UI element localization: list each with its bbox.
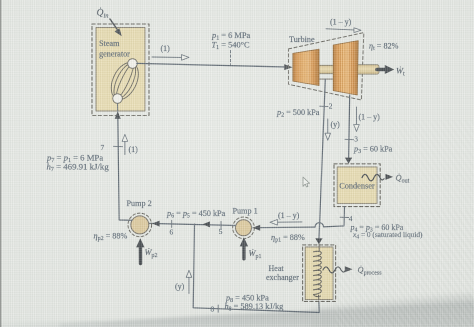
node 8 [211,305,219,314]
svg-text:(1 – y): (1 – y) [330,18,352,27]
Qprocess squiggle arrow [323,265,382,276]
state 4 text [350,223,424,241]
node 7 [101,143,123,152]
svg-text:5: 5 [219,227,223,236]
svg-text:T1 = 540°C: T1 = 540°C [212,41,250,52]
Qin arrow [110,19,122,36]
svg-text:exchanger: exchanger [266,273,299,282]
wire stage2 exit to condenser [345,95,352,164]
steam generator tube bundle [106,58,144,104]
steam generator box [92,24,149,116]
svg-text:Turbine: Turbine [289,35,315,44]
state 8 text [225,294,284,313]
wire extraction line state 2 down to heat exchanger [315,79,325,244]
state 7 text [46,153,109,173]
heat exchanger box [266,245,336,302]
svg-text:(y): (y) [175,282,185,291]
svg-text:ηp2 = 88%: ηp2 = 88% [94,232,128,243]
node 3 [345,135,358,144]
svg-text:ηt = 82%: ηt = 82% [369,42,399,53]
svg-text:8: 8 [211,305,215,314]
wire pump1 to pump2 feed line [149,221,236,228]
Qout squiggle arrow [362,173,410,184]
svg-text:p6 = p5 = 450 kPa: p6 = p5 = 450 kPa [166,209,226,220]
svg-text:Heat: Heat [269,264,285,273]
svg-text:Ẇt: Ẇt [396,67,405,78]
svg-text:Pump 1: Pump 1 [233,207,258,216]
svg-text:2: 2 [329,102,333,111]
Wt output arrow [377,65,405,78]
svg-text:Condenser: Condenser [339,181,375,190]
Wp2 arrow [136,238,157,263]
svg-text:(1): (1) [161,44,171,53]
svg-text:Ẇp2: Ẇp2 [145,248,158,259]
flow arrow (1-y) above turbine [326,18,361,33]
svg-text:x4 = 0 (saturated liquid): x4 = 0 (saturated liquid) [352,230,423,241]
turbine shaft middle [318,65,335,73]
Wp1 arrow [240,237,262,260]
flow arrow (y) extraction [325,119,340,140]
flow arrow (1) up [122,134,138,154]
flow arrow (1-y) into condenser [354,107,380,132]
wire condenser outlet state 4 [253,207,345,231]
svg-text:ηp1 = 88%: ηp1 = 88% [271,233,305,244]
node 5 [219,221,223,236]
mouse cursor [303,177,310,187]
wire heater return (y) from junction down and bottom line to HX [193,224,319,312]
svg-text:Q̇out: Q̇out [396,173,410,184]
node 6 [170,220,174,236]
svg-text:7: 7 [101,143,105,152]
state 1 text [211,31,250,65]
node 4 [340,214,353,223]
svg-text:generator: generator [99,50,130,59]
svg-text:(y): (y) [331,120,341,129]
Qin label [97,7,109,20]
flow arrow (y) up [175,270,192,293]
condenser box [334,164,380,207]
svg-text:(1): (1) [129,145,139,154]
heat exchanger coil [314,244,322,300]
svg-text:h8 = 589.13 kJ/kg: h8 = 589.13 kJ/kg [225,302,284,313]
svg-text:3: 3 [354,135,358,144]
svg-text:Q̇in: Q̇in [97,7,109,20]
hop over extraction line [315,223,324,227]
svg-text:Q̇process: Q̇process [358,265,383,276]
wire state1 pipe to turbine [137,63,293,70]
wire pump2 outlet up to steam generator (state 7/1) [115,104,132,221]
svg-text:h7 = 469.91 kJ/kg: h7 = 469.91 kJ/kg [47,161,110,173]
bottom gray band [0,294,474,327]
turbine shaft output [356,65,379,74]
svg-text:4: 4 [349,214,353,223]
svg-text:p2 = 500 kPa: p2 = 500 kPa [276,108,320,119]
flow arrow (1) [152,44,189,60]
turbine dashed boundary [289,33,364,100]
svg-text:6: 6 [170,228,174,237]
turbine stage 2 [333,41,358,95]
turbine stage 1 [293,49,319,85]
svg-text:(1 – y): (1 – y) [359,113,381,122]
svg-text:p3 = 60 kPa: p3 = 60 kPa [353,145,393,156]
svg-text:(1 – y): (1 – y) [278,211,300,220]
svg-text:Ẇp1: Ẇp1 [249,249,262,260]
node 2 [320,102,333,111]
pump P1 [233,207,258,239]
svg-text:Pump 2: Pump 2 [127,199,152,208]
pump P2 [127,199,152,237]
svg-text:Steam: Steam [99,39,120,48]
flow arrow (1-y) into pump1 [270,211,302,225]
